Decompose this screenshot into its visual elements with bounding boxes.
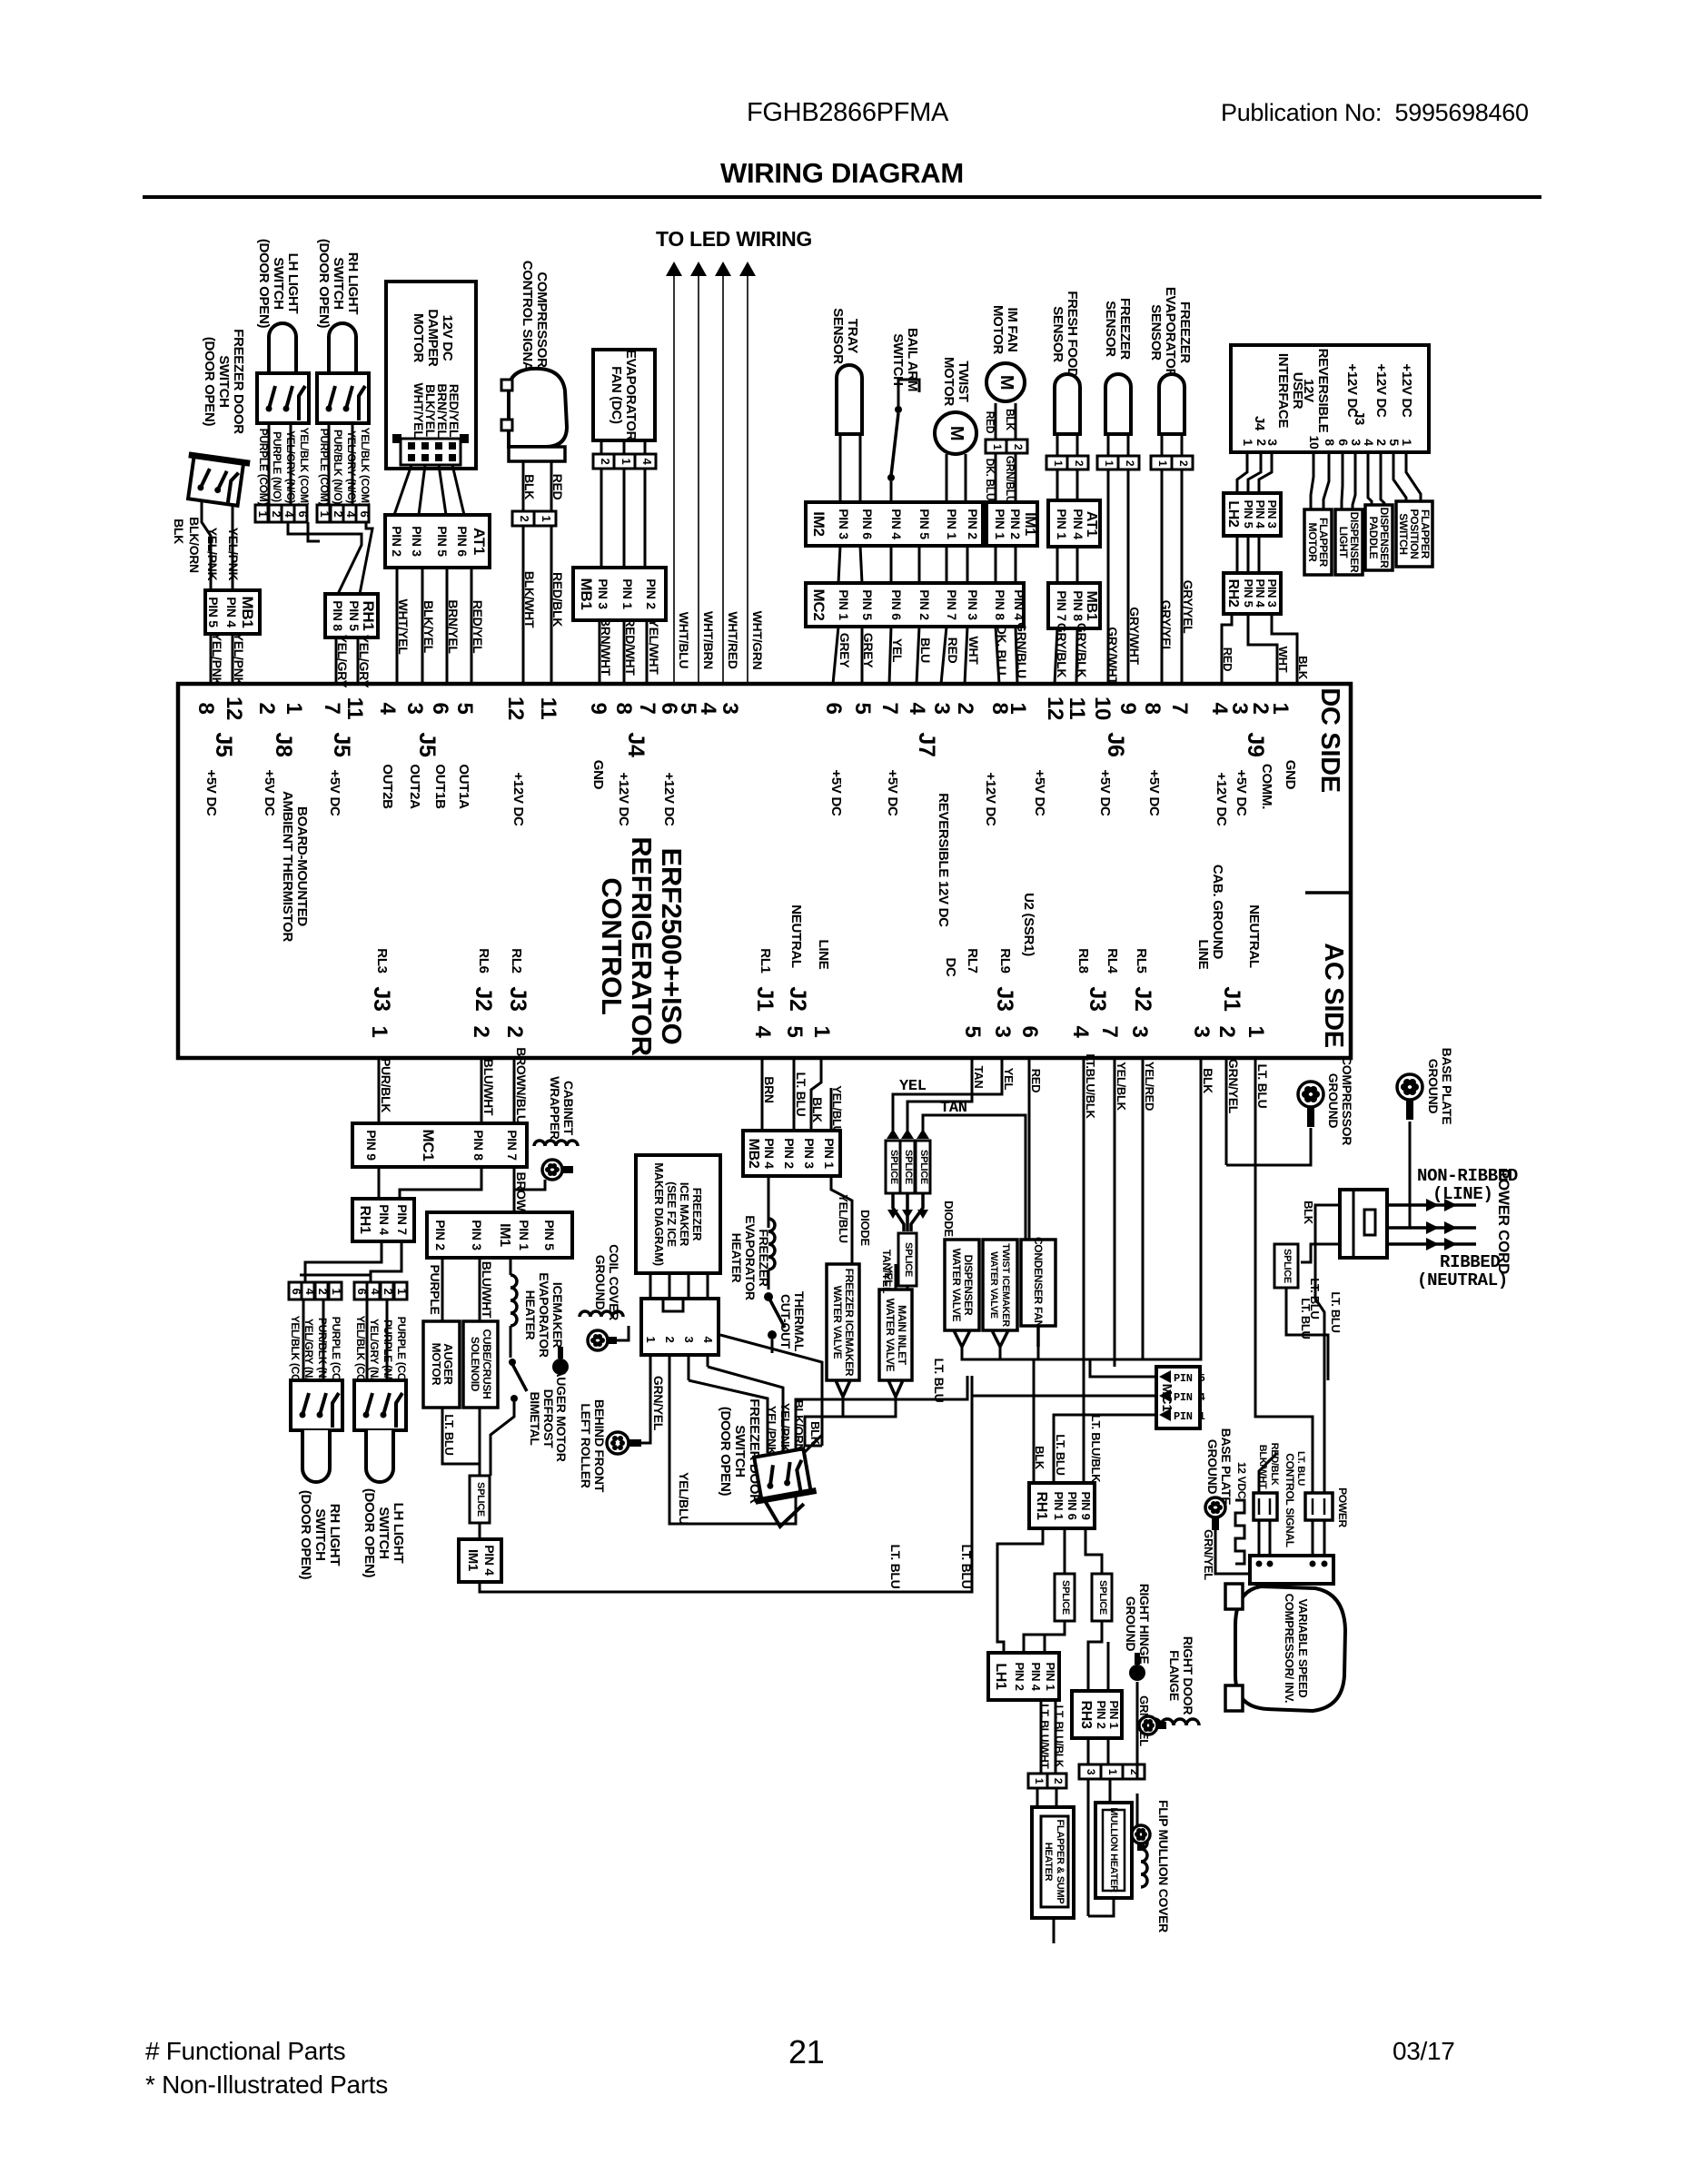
svg-text:SWITCH: SWITCH — [890, 333, 906, 385]
wire valves bus — [805, 1397, 843, 1446]
svg-text:PIN 6: PIN 6 — [455, 526, 470, 557]
connector LH1 — [988, 1653, 1059, 1700]
coil cover ground icon — [580, 1311, 623, 1317]
svg-text:12 VDC: 12 VDC — [1235, 1462, 1248, 1499]
wire RED J3-6 to condenser — [1028, 1058, 1031, 1240]
svg-text:FRESH FOOD: FRESH FOOD — [1065, 291, 1080, 378]
svg-text:BLK: BLK — [1296, 656, 1310, 680]
svg-text:LEFT ROLLER: LEFT ROLLER — [579, 1403, 593, 1487]
svg-text:RH LIGHT: RH LIGHT — [327, 1504, 342, 1566]
svg-text:RL3: RL3 — [374, 948, 390, 973]
connector IM2 — [806, 502, 983, 546]
svg-text:GREY: GREY — [838, 633, 852, 668]
connector AT1 (sensors) — [1048, 500, 1100, 547]
svg-text:GROUND: GROUND — [1124, 1596, 1138, 1652]
svg-text:PIN 2: PIN 2 — [782, 1138, 797, 1169]
svg-text:2: 2 — [1374, 439, 1389, 446]
wire PUR/BLK J3-1 to MC1 — [378, 1058, 381, 1123]
svg-text:THERMAL: THERMAL — [792, 1291, 807, 1352]
wires RH1 to J5 pins 7/11 — [335, 637, 338, 684]
svg-text:(DOOR OPEN): (DOOR OPEN) — [316, 239, 332, 329]
svg-text:PIN 2: PIN 2 — [1095, 1700, 1108, 1728]
wires control signal to inverter — [1258, 1520, 1261, 1556]
svg-text:SWITCH: SWITCH — [312, 1508, 328, 1560]
splice TAN/YEL — [898, 1233, 917, 1286]
svg-text:RH1: RH1 — [1034, 1491, 1049, 1520]
wires ice maker to fz connector — [649, 1273, 652, 1299]
svg-text:NEUTRAL: NEUTRAL — [1246, 904, 1262, 968]
svg-text:YEL/WHT: YEL/WHT — [647, 619, 661, 676]
wire YEL/RED J2 down — [1142, 1058, 1145, 1359]
svg-text:AC SIDE: AC SIDE — [1319, 943, 1348, 1048]
wire YEL/BLK J3 to MC1 — [1114, 1058, 1116, 1367]
wires IM2 to MC2 — [838, 546, 840, 583]
svg-text:RL6: RL6 — [476, 948, 491, 973]
fresh food sensor bulb — [1055, 374, 1080, 434]
svg-text:TWIST: TWIST — [956, 361, 971, 401]
svg-text:WATER VALVE: WATER VALVE — [831, 1286, 844, 1359]
svg-text:GRN/YEL: GRN/YEL — [651, 1376, 666, 1431]
svg-text:LINE: LINE — [816, 940, 831, 970]
svg-text:8: 8 — [611, 702, 636, 714]
svg-text:SENSOR: SENSOR — [1050, 306, 1066, 362]
wires twist motor to IM2 — [946, 454, 948, 502]
svg-text:PIN 5: PIN 5 — [1174, 1372, 1205, 1385]
wire MC1 pin9 to RH1 — [378, 1167, 381, 1199]
svg-text:IM FAN: IM FAN — [1005, 307, 1020, 351]
svg-text:J5: J5 — [414, 732, 440, 757]
wires RH1 to splices — [997, 1528, 1043, 1653]
base plate ground lug — [1397, 1074, 1422, 1100]
freezer door switch symbol — [183, 455, 250, 507]
board bottom edge pin numbers — [367, 1025, 1268, 1038]
wire grn/yel rh3 — [1134, 1682, 1137, 1779]
svg-text:2: 2 — [663, 1337, 677, 1343]
connector AT1 (damper) — [385, 515, 490, 568]
svg-text:J4: J4 — [623, 732, 649, 757]
svg-text:AUGER MOTOR: AUGER MOTOR — [554, 1369, 569, 1462]
svg-text:CONTROL SIGNAL: CONTROL SIGNAL — [1284, 1453, 1296, 1547]
svg-text:YEL: YEL — [1002, 1068, 1016, 1091]
LED wiring arrows and lines — [666, 262, 756, 684]
svg-text:SWITCH: SWITCH — [1397, 513, 1410, 555]
svg-text:BEHIND FRONT: BEHIND FRONT — [592, 1399, 607, 1493]
svg-text:+5V DC: +5V DC — [828, 769, 844, 816]
svg-text:DK. BLU: DK. BLU — [995, 626, 1009, 676]
wires IM1 to MC2 — [995, 546, 997, 583]
svg-text:OUT2B: OUT2B — [380, 764, 395, 809]
condenser fan box — [1021, 1240, 1056, 1326]
svg-text:WHT/BRN: WHT/BRN — [701, 611, 716, 669]
svg-text:PIN 4: PIN 4 — [1174, 1391, 1205, 1404]
svg-text:YEL/BLK: YEL/BLK — [1115, 1062, 1128, 1111]
wire BLK J2-1 to MB2 — [811, 1058, 821, 1131]
svg-text:PIN 1: PIN 1 — [822, 1138, 837, 1169]
wire BROWN MC1 to IM1 — [513, 1167, 516, 1212]
svg-text:LT. BLU: LT. BLU — [794, 1072, 808, 1117]
svg-text:PURPLE: PURPLE — [428, 1265, 442, 1315]
wires switch boxes to strips — [268, 423, 271, 505]
svg-text:WATER VALVE: WATER VALVE — [884, 1299, 897, 1372]
svg-text:BLK: BLK — [1201, 1068, 1215, 1093]
svg-text:J4: J4 — [1252, 416, 1267, 431]
svg-text:WATER VALVE: WATER VALVE — [950, 1249, 963, 1322]
splice lower 1 — [1055, 1574, 1075, 1621]
svg-text:LT. BLU: LT. BLU — [1255, 1064, 1270, 1109]
svg-text:J3: J3 — [369, 986, 394, 1011]
svg-text:4: 4 — [640, 459, 654, 466]
svg-text:+5V DC: +5V DC — [327, 769, 342, 816]
svg-text:COMM.: COMM. — [1259, 764, 1274, 809]
svg-text:J3: J3 — [992, 986, 1017, 1011]
svg-text:RIBBED: RIBBED — [1440, 1252, 1501, 1272]
svg-text:BROWN/BLUE: BROWN/BLUE — [514, 1047, 529, 1132]
svg-text:MOTOR: MOTOR — [411, 313, 426, 363]
wire LT.BLU/BLK to RH1 pin9 — [1083, 1058, 1085, 1483]
svg-text:+12V DC: +12V DC — [510, 772, 526, 826]
svg-text:GRY/BLK: GRY/BLK — [1055, 623, 1069, 678]
connector strip RH 1246 — [317, 505, 330, 522]
svg-text:RH1: RH1 — [357, 1205, 372, 1234]
board top edge signal names — [203, 760, 1298, 943]
svg-text:FREEZER DOOR: FREEZER DOOR — [231, 329, 246, 434]
svg-text:TO LED WIRING: TO LED WIRING — [656, 227, 812, 251]
svg-text:GROUND: GROUND — [593, 1255, 608, 1310]
svg-text:MC2: MC2 — [810, 589, 828, 621]
svg-text:(SEE FZ ICE: (SEE FZ ICE — [665, 1181, 679, 1247]
svg-text:DISPENSER: DISPENSER — [962, 1255, 975, 1316]
wire grn/yel fz pin1 to roller — [641, 1355, 650, 1443]
svg-text:SWITCH: SWITCH — [331, 257, 346, 309]
svg-text:PIN 2: PIN 2 — [644, 578, 659, 609]
svg-text:PADDLE: PADDLE — [1367, 517, 1380, 559]
svg-text:PIN 2: PIN 2 — [433, 1220, 448, 1250]
svg-text:FREEZER: FREEZER — [690, 1188, 704, 1241]
thermal cut-out switch — [764, 1292, 773, 1301]
svg-text:* Non-Illustrated Parts: * Non-Illustrated Parts — [145, 2070, 388, 2099]
svg-text:2: 2 — [1124, 460, 1136, 467]
svg-text:SENSOR: SENSOR — [1103, 301, 1118, 357]
svg-text:+12V DC: +12V DC — [983, 772, 998, 826]
svg-text:PIN 5: PIN 5 — [435, 526, 450, 557]
svg-text:COMPRESSOR: COMPRESSOR — [1340, 1056, 1354, 1145]
svg-text:1: 1 — [619, 459, 633, 465]
svg-text:LT. BLU: LT. BLU — [1329, 1291, 1343, 1332]
svg-text:PIN 8: PIN 8 — [1071, 590, 1085, 621]
svg-text:BLK: BLK — [522, 474, 537, 499]
svg-text:PIN 6: PIN 6 — [860, 509, 875, 539]
svg-text:MAKER DIAGRAM): MAKER DIAGRAM) — [652, 1162, 666, 1266]
wire BROWN/BLUE J3-2 to MC1 — [513, 1058, 516, 1123]
svg-text:(NEUTRAL): (NEUTRAL) — [1417, 1270, 1508, 1290]
svg-text:YEL/PNK: YEL/PNK — [778, 1403, 792, 1453]
light switch wire colour labels — [257, 428, 372, 507]
wires LH1 to 1|2 — [1040, 1700, 1043, 1774]
svg-text:CONTROL: CONTROL — [596, 877, 628, 1014]
svg-text:J2: J2 — [471, 986, 496, 1011]
svg-text:3: 3 — [682, 1337, 696, 1343]
svg-text:HEATER: HEATER — [1043, 1843, 1054, 1882]
svg-text:FAN (DC): FAN (DC) — [609, 366, 624, 424]
freezer sensor connector — [1097, 456, 1118, 469]
svg-text:RED: RED — [946, 637, 960, 664]
svg-text:DK. BLU: DK. BLU — [984, 459, 996, 501]
svg-text:PIN 1: PIN 1 — [1174, 1410, 1205, 1423]
svg-text:PIN 6: PIN 6 — [889, 589, 904, 620]
svg-text:YEL: YEL — [899, 1078, 927, 1095]
svg-text:POWER CORD: POWER CORD — [1495, 1169, 1512, 1274]
svg-text:CAB. GROUND: CAB. GROUND — [1210, 865, 1225, 960]
svg-text:TWIST ICEMAKER: TWIST ICEMAKER — [1000, 1243, 1011, 1327]
svg-text:5: 5 — [1387, 439, 1402, 446]
svg-text:RL7: RL7 — [965, 948, 980, 973]
svg-text:PIN 4: PIN 4 — [889, 509, 904, 539]
svg-text:1: 1 — [1400, 439, 1414, 446]
wire splice tanyel to main inlet valve — [896, 1286, 907, 1290]
svg-text:M: M — [947, 426, 966, 440]
wire base plate ground to cord — [1410, 1122, 1476, 1228]
cube/crush solenoid box — [463, 1321, 498, 1408]
svg-text:PIN 4: PIN 4 — [1071, 509, 1085, 539]
connector MB1 (sensors) — [1048, 583, 1100, 628]
svg-text:COMPRESSOR/ INV.: COMPRESSOR/ INV. — [1283, 1594, 1296, 1703]
connector RH1 (door) — [1029, 1483, 1095, 1528]
svg-text:GRY/WHT: GRY/WHT — [1127, 607, 1142, 665]
splice (power) — [1274, 1244, 1298, 1288]
wire purple IM1 to auger motor — [441, 1258, 444, 1321]
svg-text:IM1: IM1 — [465, 1549, 481, 1571]
connector MB1 (door) — [205, 590, 260, 634]
svg-text:AMBIENT THERMISTOR: AMBIENT THERMISTOR — [280, 791, 295, 942]
svg-text:PIN 3: PIN 3 — [470, 1220, 484, 1250]
svg-text:IM1: IM1 — [497, 1223, 512, 1247]
svg-text:1: 1 — [1244, 1025, 1268, 1037]
svg-text:7: 7 — [877, 702, 902, 714]
svg-text:1: 1 — [540, 516, 553, 522]
svg-text:1: 1 — [1106, 1769, 1119, 1775]
svg-text:1: 1 — [1052, 460, 1065, 467]
svg-text:BLK: BLK — [1302, 1201, 1315, 1225]
svg-text:J3: J3 — [1352, 410, 1367, 425]
svg-text:NEUTRAL: NEUTRAL — [788, 904, 804, 968]
svg-text:21: 21 — [788, 2033, 824, 2070]
svg-text:3: 3 — [718, 702, 742, 714]
svg-text:WRAPPER: WRAPPER — [548, 1076, 562, 1140]
svg-text:RIGHT DOOR: RIGHT DOOR — [1181, 1636, 1195, 1715]
svg-text:EVAPORATOR: EVAPORATOR — [743, 1215, 758, 1300]
svg-text:WIRING DIAGRAM: WIRING DIAGRAM — [720, 157, 964, 189]
svg-text:PIN 2: PIN 2 — [1008, 509, 1023, 539]
svg-text:PIN 1: PIN 1 — [1044, 1662, 1057, 1690]
LH LIGHT switch box — [257, 373, 309, 423]
svg-text:11: 11 — [342, 697, 367, 720]
RH LIGHT switch box — [317, 373, 369, 423]
svg-text:+5V DC: +5V DC — [203, 769, 219, 816]
svg-text:RED/BLK: RED/BLK — [550, 572, 565, 627]
wires MB1 to J6 12/11 — [1055, 628, 1057, 684]
svg-text:BRN/YEL: BRN/YEL — [446, 599, 461, 654]
right hinge ground lamp — [1129, 1665, 1145, 1681]
svg-text:4: 4 — [696, 702, 720, 715]
svg-text:+12V DC: +12V DC — [1373, 363, 1389, 418]
svg-text:+5V DC: +5V DC — [1234, 769, 1249, 816]
wire yel/blu fz pin2 down — [669, 1355, 967, 1524]
svg-text:5: 5 — [960, 1025, 985, 1037]
svg-text:(DOOR OPEN): (DOOR OPEN) — [362, 1488, 377, 1578]
svg-text:SENSOR: SENSOR — [1148, 304, 1164, 361]
svg-text:PIN 3: PIN 3 — [802, 1138, 817, 1169]
svg-text:# Functional Parts: # Functional Parts — [145, 2037, 345, 2065]
svg-text:SPLICE: SPLICE — [1060, 1580, 1071, 1615]
svg-text:3: 3 — [1349, 439, 1363, 446]
svg-text:2: 2 — [1128, 1769, 1141, 1775]
svg-text:IM1: IM1 — [1022, 512, 1037, 536]
svg-text:CUBE/CRUSH: CUBE/CRUSH — [481, 1329, 493, 1398]
svg-text:MB1: MB1 — [239, 597, 256, 628]
svg-text:+12V DC: +12V DC — [1214, 772, 1229, 826]
svg-text:J2: J2 — [1130, 986, 1155, 1011]
svg-text:PIN 8: PIN 8 — [331, 600, 345, 631]
svg-text:8: 8 — [1323, 439, 1337, 446]
svg-text:FREEZER: FREEZER — [1117, 298, 1133, 360]
svg-text:PIN 7: PIN 7 — [505, 1130, 520, 1161]
svg-text:7: 7 — [1097, 1025, 1122, 1037]
svg-text:HEATER: HEATER — [523, 1290, 538, 1340]
svg-text:DC: DC — [943, 957, 958, 977]
power cord lines — [1387, 1203, 1476, 1207]
svg-text:PIN 2: PIN 2 — [917, 589, 932, 620]
svg-text:ICE MAKER: ICE MAKER — [678, 1182, 691, 1247]
svg-text:RED/WHT: RED/WHT — [623, 618, 638, 676]
svg-text:7: 7 — [635, 702, 659, 714]
wire MC1 pin4 run — [972, 1395, 1156, 1398]
wires UI J3 to flapper/dispenser — [1311, 452, 1313, 509]
svg-text:J5: J5 — [329, 732, 354, 757]
flapper & sump heater box — [1032, 1807, 1074, 1918]
wire BLU/WHT J2-2 to MC1 — [481, 1058, 483, 1123]
svg-text:Publication No: 5995698460: Publication No: 5995698460 — [1221, 99, 1529, 126]
svg-text:6: 6 — [296, 511, 310, 518]
svg-text:1: 1 — [1241, 439, 1255, 446]
svg-text:LT. BLU: LT. BLU — [959, 1545, 974, 1589]
RH light switch bulb — [302, 1430, 330, 1482]
svg-text:MOTOR: MOTOR — [1306, 523, 1319, 563]
svg-text:2: 2 — [599, 459, 612, 465]
wires AT1 to J5 pins — [396, 568, 399, 684]
svg-text:RL8: RL8 — [1075, 948, 1091, 973]
svg-text:6: 6 — [821, 702, 846, 714]
svg-text:REVERSIBLE: REVERSIBLE — [1315, 349, 1331, 433]
title rule — [143, 195, 1541, 199]
svg-text:10: 10 — [1090, 697, 1115, 720]
svg-text:LT. BLU/BLK: LT. BLU/BLK — [1089, 1415, 1103, 1483]
12V DC damper motor box — [386, 282, 476, 469]
svg-text:ERF2500++ISO: ERF2500++ISO — [656, 848, 688, 1045]
svg-text:PIN 3: PIN 3 — [410, 526, 424, 557]
connector 1|2 flapper — [1028, 1774, 1047, 1788]
freezer evap sensor bulb — [1159, 374, 1184, 434]
svg-text:PIN 2: PIN 2 — [390, 526, 404, 557]
fz icemaker connector — [641, 1299, 719, 1355]
svg-text:LINE: LINE — [1195, 940, 1211, 970]
freezer door switch lower symbol — [748, 1448, 821, 1530]
svg-text:03/17: 03/17 — [1393, 2037, 1455, 2065]
svg-text:PIN 5: PIN 5 — [1242, 499, 1255, 528]
svg-text:PIN 1: PIN 1 — [1052, 1491, 1066, 1519]
wire blu/wht IM1 to solenoid — [479, 1258, 481, 1321]
wire MC1 pin1 run — [1054, 1415, 1156, 1483]
svg-text:PIN 1: PIN 1 — [517, 1220, 531, 1250]
svg-text:PIN 7: PIN 7 — [945, 589, 959, 620]
svg-text:LH1: LH1 — [993, 1663, 1008, 1690]
svg-text:1: 1 — [1033, 1778, 1046, 1784]
svg-text:GREY: GREY — [861, 633, 876, 668]
control signal connector — [1254, 1493, 1277, 1520]
wires MB1 to J5 pins 8/12 — [210, 634, 213, 684]
wires UI J4 to LH2 — [1237, 452, 1247, 493]
splice lower 2 — [1092, 1574, 1112, 1621]
svg-text:3: 3 — [1265, 439, 1280, 446]
svg-text:GND: GND — [590, 760, 606, 790]
svg-text:2: 2 — [518, 516, 531, 522]
wires MB1 to J4 9/8/7 — [599, 620, 601, 684]
svg-text:LT. BLU: LT. BLU — [888, 1545, 903, 1589]
IM1 PIN4 box — [459, 1539, 501, 1582]
svg-text:WATER VALVE: WATER VALVE — [988, 1251, 999, 1319]
connector 3|1|2 — [1079, 1764, 1101, 1779]
icemaker evaporator heater coil — [510, 1275, 517, 1326]
board bottom edge connector names — [369, 986, 1244, 1012]
svg-text:PIN 5: PIN 5 — [860, 589, 875, 620]
user interface pin numbers — [1241, 436, 1414, 450]
compressor ground lug — [1298, 1082, 1323, 1107]
diode arrows to splice TAN/YEL — [893, 1193, 904, 1231]
wire TAN to splice3 — [923, 1115, 1026, 1240]
svg-text:BLK: BLK — [1004, 409, 1016, 430]
svg-text:4: 4 — [1068, 1025, 1093, 1038]
svg-text:12V DC: 12V DC — [440, 315, 455, 361]
svg-text:BASE PLATE: BASE PLATE — [1440, 1048, 1454, 1125]
freezer evap sensor connector — [1151, 456, 1172, 469]
flip mullion cover icon — [1141, 1836, 1147, 1887]
svg-text:BLK/YEL: BLK/YEL — [421, 600, 436, 654]
wires tray sensor to IM2 — [839, 434, 842, 502]
svg-text:GRY/BLK: GRY/BLK — [1075, 623, 1089, 678]
svg-text:J1: J1 — [752, 986, 778, 1012]
svg-text:MOTOR: MOTOR — [941, 357, 956, 407]
svg-text:M: M — [996, 375, 1016, 390]
svg-text:MOTOR: MOTOR — [990, 305, 1006, 355]
svg-text:PUR/BLK: PUR/BLK — [379, 1058, 393, 1112]
svg-text:J2: J2 — [785, 986, 810, 1011]
svg-text:3: 3 — [1227, 702, 1252, 714]
svg-text:MAIN INLET: MAIN INLET — [896, 1305, 908, 1366]
svg-text:RL2: RL2 — [509, 948, 524, 973]
compressor connector bar — [509, 447, 565, 461]
svg-text:POWER: POWER — [1336, 1487, 1349, 1527]
wire LT.BLU auger to splice — [442, 1408, 480, 1476]
wires MC2 to J7 — [833, 627, 838, 684]
svg-text:RH2: RH2 — [1225, 578, 1241, 608]
svg-text:1: 1 — [395, 1289, 409, 1295]
svg-text:PIN 1: PIN 1 — [945, 509, 959, 539]
variable speed compressor blob — [1235, 1586, 1345, 1711]
main inlet water valve box — [879, 1290, 912, 1380]
svg-text:SWITCH: SWITCH — [732, 1425, 748, 1477]
svg-text:6: 6 — [1017, 1025, 1042, 1037]
svg-text:WHT/GRN: WHT/GRN — [750, 611, 765, 670]
svg-text:(DOOR OPEN): (DOOR OPEN) — [202, 337, 217, 427]
